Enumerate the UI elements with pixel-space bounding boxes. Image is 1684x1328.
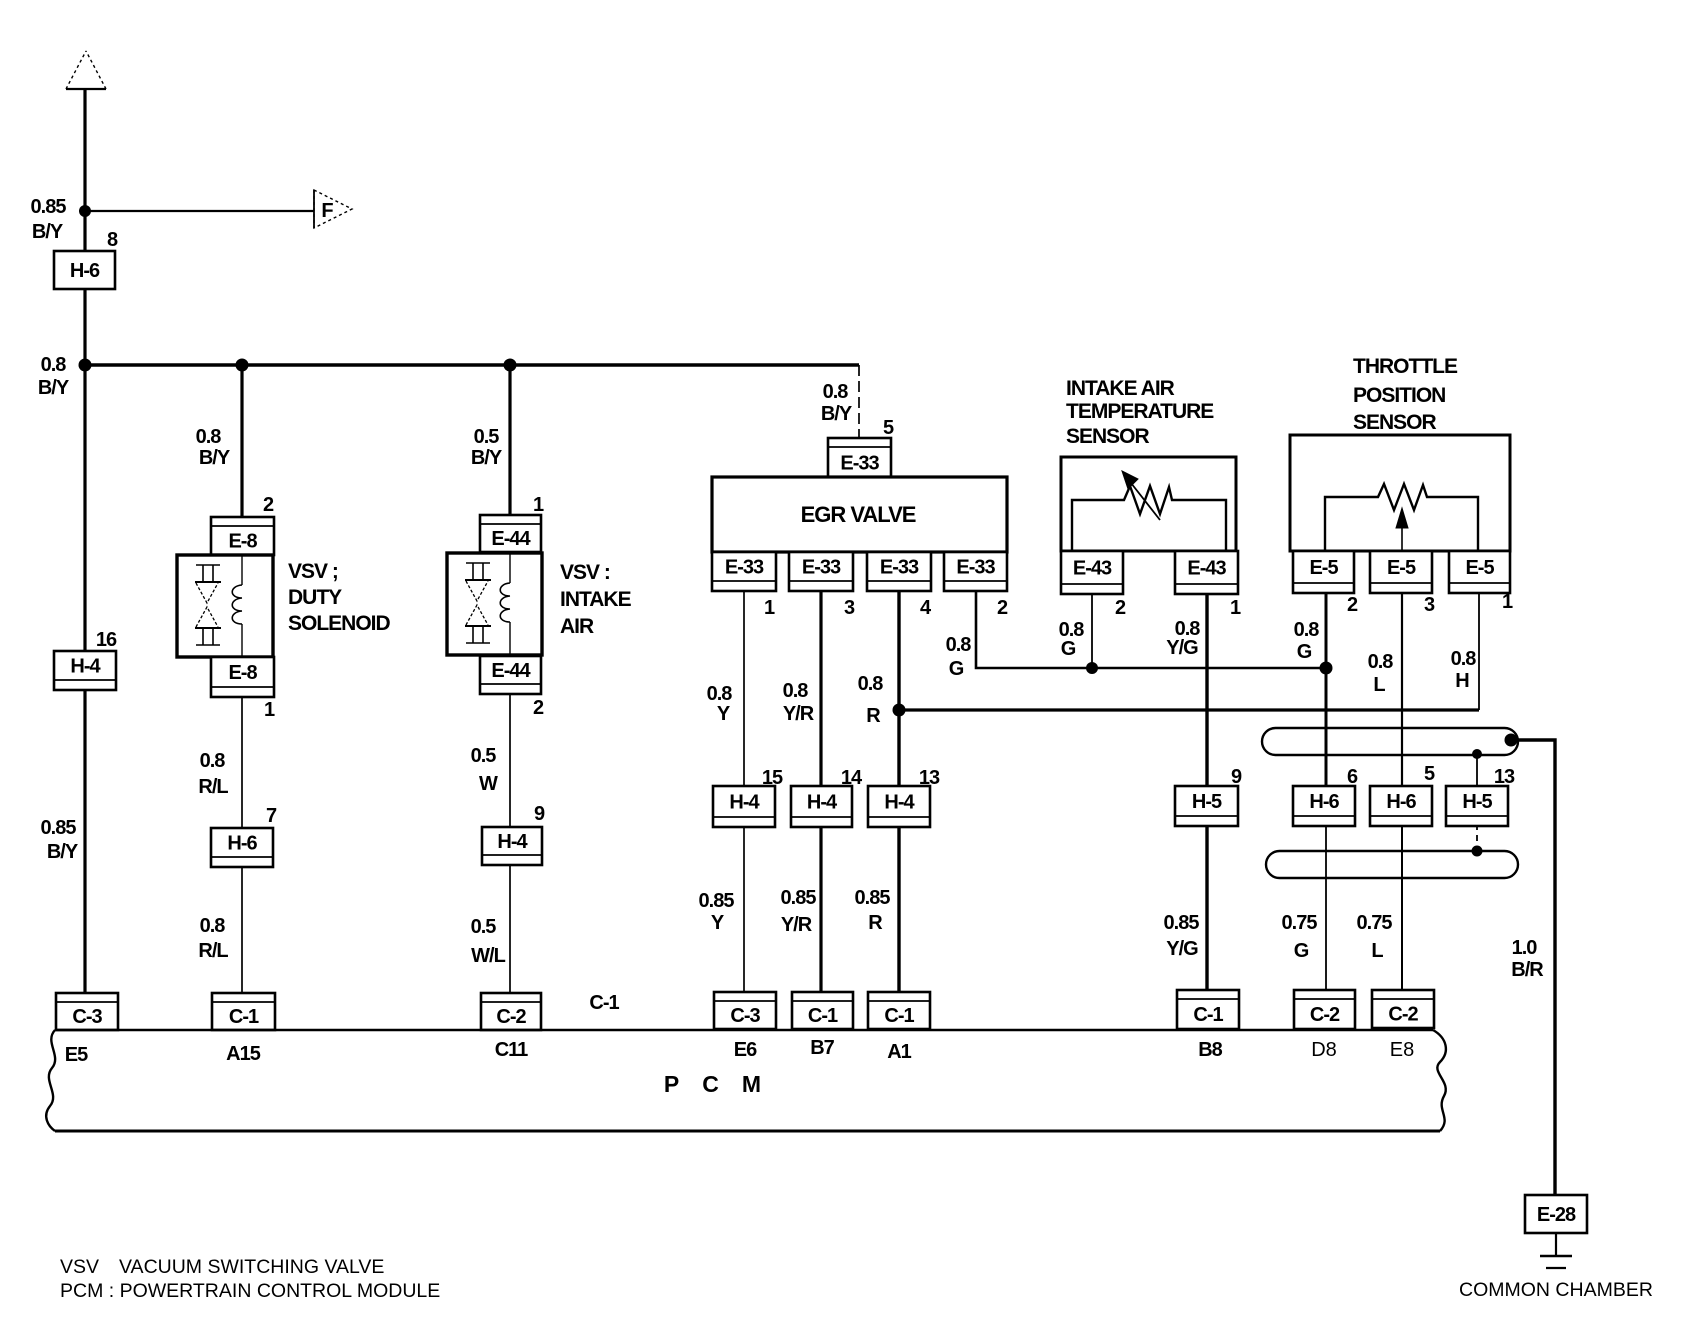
svg-text:2: 2 [1115,597,1126,619]
wire 0.5 W / 0.5 W/L VSV intake to C-2 C11 [509,692,511,995]
wire 0.8 Y/G / 0.85 Y/G IAT pin1 to C-1 B8 [1205,592,1208,992]
connector E-33 pin 1 [712,552,776,591]
coil symbol (intake) [500,552,510,655]
pin number 1 (E-44 top) [533,494,544,516]
wire 0.8 Y/R / 0.85 Y/R EGR pin3 to C-1 B7 [819,589,822,994]
svg-text:R/L: R/L [198,940,228,962]
svg-text:2: 2 [997,597,1008,619]
svg-text:0.85: 0.85 [781,887,817,909]
pin number 3 (E-5) [1424,594,1435,616]
wire 0.5 B/Y to VSV intake [508,365,511,517]
junction bus-left [79,359,92,372]
svg-text:E-8: E-8 [228,531,257,553]
connector E-33 pin 4 [867,552,931,591]
svg-text:A1: A1 [887,1041,911,1063]
svg-text:2: 2 [263,494,274,516]
svg-text:H-5: H-5 [1462,791,1492,813]
connector C-1 pin A15 [212,993,275,1030]
svg-text:H-6: H-6 [1309,791,1339,813]
svg-text:P: P [664,1071,679,1097]
label 0.85 Y [699,890,735,934]
connector E-8 pin 1 (bottom) [211,657,274,697]
svg-text:B/Y: B/Y [32,221,64,243]
pin number 15 [762,767,783,789]
svg-text:THROTTLE: THROTTLE [1353,355,1458,378]
svg-text:VACUUM SWITCHING VALVE: VACUUM SWITCHING VALVE [119,1256,384,1278]
connector H-4 pin 13 [868,786,930,827]
label 0.8 L [1368,651,1394,696]
wire shield drain to E-28 [1511,740,1555,1197]
connector C-1 pin B7 [792,992,853,1029]
junction at F branch [79,205,91,217]
pin number 2 (E-8 top) [263,494,274,516]
PCM body outline [46,1030,1446,1131]
pin number 5 (H-6) [1424,763,1435,785]
svg-text:9: 9 [534,803,545,825]
svg-text:0.8: 0.8 [1294,619,1320,641]
legend PCM [60,1280,440,1302]
label C-1 (PCM) [589,992,619,1014]
svg-text:0.8: 0.8 [1451,648,1477,670]
potentiometer element (TPS) [1325,484,1478,551]
wire 0.85 B/Y left main vertical [83,89,86,993]
wire 0.8 B/Y horizontal bus [85,363,859,366]
svg-text:E-43: E-43 [1073,558,1112,580]
connector E-28 [1525,1195,1587,1233]
svg-text:0.85: 0.85 [855,887,891,909]
svg-text:B/Y: B/Y [821,403,853,425]
svg-text:C-3: C-3 [730,1005,760,1027]
svg-text:5: 5 [1424,763,1435,785]
svg-text:C-3: C-3 [72,1006,102,1028]
svg-text:G: G [1061,638,1076,660]
label 0.8 Y [707,683,733,725]
svg-text:SENSOR: SENSOR [1066,425,1150,448]
svg-text:3: 3 [844,597,855,619]
pin number 2 (E-5) [1347,594,1358,616]
label 0.85 B/Y (lower left) [41,817,79,863]
VSV intake air body [447,553,542,655]
label 0.8 G (EGR pin2) [946,634,972,680]
svg-text:C-1: C-1 [589,992,619,1014]
wire E-28 to ground [1555,1231,1557,1256]
wire 0.8 L TPS pin3 down [1401,591,1403,788]
svg-text:W/L: W/L [471,945,505,967]
svg-text:3: 3 [1424,594,1435,616]
pin number 13 (H-5) [1494,766,1515,788]
connector H-6 pin 8 [54,251,115,289]
connector E-5 pin 3 [1370,551,1432,593]
svg-text:SENSOR: SENSOR [1353,411,1437,434]
pin number 13 (H-4) [919,767,940,789]
svg-text:E8: E8 [1390,1039,1414,1061]
pin number 2 (E-43) [1115,597,1126,619]
svg-text:0.8: 0.8 [707,683,733,705]
connector C-1 pin A1 [868,992,930,1029]
svg-text:0.8: 0.8 [200,915,226,937]
svg-text:2: 2 [533,697,544,719]
svg-text:0.8: 0.8 [1368,651,1394,673]
TPS body [1290,435,1510,551]
svg-text:Y/R: Y/R [783,703,815,725]
svg-text:C-1: C-1 [808,1005,838,1027]
svg-text:16: 16 [96,629,117,651]
svg-text:W: W [479,773,498,795]
svg-text:0.8: 0.8 [200,750,226,772]
label 0.8 H [1451,648,1477,692]
junction R branch [893,704,906,717]
svg-text:B/Y: B/Y [199,447,231,469]
component label VSV INTAKE AIR [560,561,632,638]
pin number 7 [266,805,277,827]
connector E-5 pin 2 [1293,551,1354,593]
svg-text:C-1: C-1 [229,1006,259,1028]
svg-text:E-5: E-5 [1387,557,1416,579]
label 0.8 Y/R [783,680,815,725]
label 0.85 R [855,887,891,934]
svg-text:E-33: E-33 [725,557,764,579]
label 0.8 R/L (upper) [198,750,228,798]
svg-text:0.8: 0.8 [196,426,222,448]
wire 0.8 R / 0.85 R EGR pin4 to C-1 A1 [897,589,900,994]
thermistor element (IAT) [1072,486,1226,551]
svg-text:H-4: H-4 [497,831,528,853]
pin name E5 [65,1044,88,1066]
wire 0.8 Y / 0.85 Y EGR pin1 to C-3 E6 [743,589,745,994]
svg-text:D8: D8 [1311,1039,1337,1061]
connector E-33 pin 3 [789,552,853,591]
pin name B7 [810,1037,834,1059]
svg-text:B7: B7 [810,1037,834,1059]
wire 0.8 B/Y drop to EGR pin 5 [858,365,860,440]
svg-text:C-2: C-2 [1310,1004,1340,1026]
valve symbol (intake) [465,563,491,643]
svg-text:C-1: C-1 [1193,1004,1223,1026]
svg-text:A15: A15 [226,1043,261,1065]
label 1.0 B/R [1511,937,1544,981]
shield oval lower [1266,851,1518,878]
svg-text:H-6: H-6 [1386,791,1416,813]
pin number 8 [107,229,118,251]
svg-text:TEMPERATURE: TEMPERATURE [1066,400,1214,423]
pin number 6 (H-6) [1347,766,1358,788]
pin number 5 (EGR top) [883,417,894,439]
svg-text:0.8: 0.8 [41,354,67,376]
svg-text:C-1: C-1 [884,1005,914,1027]
VSV duty solenoid body [177,555,273,657]
pin name B8 [1198,1039,1222,1061]
label 0.75 G [1282,912,1318,962]
component label PCM [664,1071,760,1097]
thermistor arrow (IAT) [1122,471,1160,520]
svg-text:13: 13 [1494,766,1515,788]
svg-text:E-44: E-44 [491,660,531,682]
connector C-1 pin B8 [1177,990,1239,1029]
label 0.85 Y/R [781,887,817,936]
pin name D8 [1311,1039,1337,1061]
svg-text:0.5: 0.5 [471,745,497,767]
connector C-2 pin C11 [481,993,541,1030]
svg-text:R: R [866,705,881,727]
svg-text:E-33: E-33 [880,557,919,579]
svg-text:INTAKE: INTAKE [560,588,632,611]
svg-text:H-6: H-6 [70,260,100,282]
connector E-43 pin 1 [1175,551,1238,594]
label 0.8 B/Y (bus) [38,354,70,399]
svg-text:C11: C11 [495,1039,528,1061]
svg-text:H-4: H-4 [70,656,101,678]
label 0.8 G (IAT) [1059,619,1085,660]
connector C-2 pin E8 [1372,990,1434,1028]
svg-text:EGR VALVE: EGR VALVE [801,502,916,527]
svg-text:H-5: H-5 [1192,791,1222,813]
wire 0.8 B/Y to VSV duty [240,365,243,519]
svg-text:E-33: E-33 [956,557,995,579]
connector H-6 pin 6 [1293,786,1355,826]
label 0.5 W [471,745,498,795]
connector H-5 pin 9 [1175,786,1238,826]
svg-text:0.8: 0.8 [823,381,849,403]
svg-text:Y: Y [711,912,725,934]
svg-text:15: 15 [762,767,783,789]
svg-text:1.0: 1.0 [1512,937,1538,959]
svg-text:E-5: E-5 [1309,557,1338,579]
label 0.75 L [1357,912,1393,962]
svg-text:G: G [949,658,964,680]
connector H-4 pin 16 [54,651,116,690]
svg-text:13: 13 [919,767,940,789]
connector E-44 pin 2 (bottom) [480,656,541,694]
wire 0.8 H TPS pin1 down [1478,591,1480,710]
svg-text:0.85: 0.85 [31,196,67,218]
svg-text:0.75: 0.75 [1357,912,1393,934]
pin number 1 (EGR) [764,597,775,619]
svg-text:H-6: H-6 [227,833,257,855]
coil symbol (duty) [232,555,242,657]
connector C-2 pin D8 [1294,990,1355,1029]
pin name C11 [495,1039,528,1061]
svg-text:0.8: 0.8 [858,673,884,695]
shield oval upper [1262,728,1518,755]
label 0.8 G (TPS) [1294,619,1320,663]
pin number 14 [841,767,863,789]
svg-text:COMMON CHAMBER: COMMON CHAMBER [1459,1279,1653,1301]
connector H-4 pin 14 [791,786,852,827]
svg-text:VSV ;: VSV ; [288,560,338,583]
connector E-8 pin 2 (top) [211,517,274,555]
svg-text:C-2: C-2 [1388,1004,1418,1026]
page reference triangle (top) [66,51,106,89]
component label THROTTLE POSITION SENSOR [1353,355,1458,434]
svg-text:E-33: E-33 [840,453,879,475]
label 0.8 B/Y (EGR) [821,381,853,425]
svg-text:E5: E5 [65,1044,88,1066]
component label INTAKE AIR TEMPERATURE SENSOR [1066,377,1214,448]
svg-text:SOLENOID: SOLENOID [288,612,391,635]
component label EGR VALVE [801,502,916,527]
connector E-43 pin 2 [1061,551,1123,594]
pin number 1 (E-5) [1502,591,1513,613]
label 0.8 R [858,673,884,727]
label 0.5 B/Y (intake branch) [471,426,503,469]
svg-text:L: L [1373,674,1385,696]
label 0.5 W/L [471,916,506,967]
connector H-4 pin 9 [482,827,542,865]
potentiometer wiper (TPS) [1396,508,1408,551]
svg-text:C-2: C-2 [496,1006,526,1028]
wire shield tap to H-5 13 [1476,754,1478,788]
svg-text:F: F [321,200,333,222]
pin number 1 (E-8 bottom) [264,699,275,721]
pin number 9 [534,803,545,825]
junction shield drain [1505,734,1518,747]
wire 0.8 G TPS pin2 down [1325,591,1328,788]
pin number 3 (EGR) [844,597,855,619]
svg-text:G: G [1294,940,1309,962]
EGR valve body [712,477,1007,552]
connector C-3 pin E5 [56,993,118,1030]
svg-text:1: 1 [264,699,275,721]
wire 0.8 G IAT pin2 [1091,592,1093,668]
svg-text:0.85: 0.85 [699,890,735,912]
wire 0.8 G EGR pin2 [976,589,1324,668]
svg-text:PCM : POWERTRAIN CONTROL MODUL: PCM : POWERTRAIN CONTROL MODULE [60,1280,440,1302]
svg-text:L: L [1371,940,1383,962]
legend VSV [60,1256,384,1278]
wire 0.75 L to C-2 E8 [1401,824,1403,992]
svg-text:6: 6 [1347,766,1358,788]
svg-text:H-4: H-4 [729,792,760,814]
pin number 2 (EGR) [997,597,1008,619]
pin number 2 (E-44 bottom) [533,697,544,719]
svg-text:VSV: VSV [60,1256,99,1278]
svg-text:E-44: E-44 [491,528,531,550]
svg-text:C: C [702,1071,718,1097]
connector H-6 pin 5 [1370,786,1432,826]
svg-text:0.8: 0.8 [783,680,809,702]
svg-text:2: 2 [1347,594,1358,616]
label 0.85 Y/G [1164,912,1200,960]
svg-text:POSITION: POSITION [1353,384,1445,407]
svg-text:E6: E6 [734,1039,757,1061]
junction lower shield [1472,846,1483,857]
junction shield tap [1472,749,1482,759]
label 0.85 B/Y (top left) [31,196,67,243]
svg-text:1: 1 [1230,597,1241,619]
valve symbol (duty) [195,565,221,645]
connector H-5 pin 13 [1446,786,1508,826]
svg-text:E-28: E-28 [1537,1204,1576,1226]
svg-text:B/Y: B/Y [471,447,503,469]
svg-text:1: 1 [533,494,544,516]
svg-text:H-4: H-4 [884,792,915,814]
svg-text:R: R [868,912,883,934]
svg-text:0.8: 0.8 [946,634,972,656]
svg-text:14: 14 [841,767,863,789]
connector H-6 pin 7 [211,828,273,867]
svg-text:E-43: E-43 [1187,558,1226,580]
svg-text:Y/R: Y/R [781,914,813,936]
svg-text:H-4: H-4 [807,792,838,814]
svg-text:AIR: AIR [560,615,594,638]
connector C-3 pin E6 [714,992,776,1029]
svg-text:9: 9 [1231,766,1242,788]
pin number 1 (E-43) [1230,597,1241,619]
wire branch to F connector arrow [85,210,314,212]
IAT sensor body [1061,457,1236,551]
pin number 9 (H-5) [1231,766,1242,788]
svg-text:H: H [1455,670,1469,692]
label 0.8 Y/G [1166,618,1200,659]
pin number 4 (EGR) [920,597,932,619]
svg-text:0.85: 0.85 [1164,912,1200,934]
label 0.8 R/L (lower) [198,915,228,962]
svg-text:1: 1 [764,597,775,619]
component label VSV DUTY SOLENOID [288,560,391,635]
svg-text:0.75: 0.75 [1282,912,1318,934]
svg-text:VSV :: VSV : [560,561,610,584]
svg-text:B/Y: B/Y [38,377,70,399]
svg-text:0.85: 0.85 [41,817,77,839]
pin name E6 [734,1039,757,1061]
pin name A15 [226,1043,261,1065]
svg-text:B8: B8 [1198,1039,1222,1061]
svg-text:M: M [742,1071,760,1097]
svg-text:8: 8 [107,229,118,251]
svg-text:INTAKE AIR: INTAKE AIR [1066,377,1175,400]
svg-text:G: G [1297,641,1312,663]
svg-text:E-33: E-33 [802,557,841,579]
svg-text:DUTY: DUTY [288,586,342,609]
label COMMON CHAMBER [1459,1279,1653,1301]
svg-text:Y: Y [717,703,731,725]
svg-text:Y/G: Y/G [1166,637,1198,659]
connector E-44 pin 1 (top) [480,515,541,552]
pin name A1 [887,1041,911,1063]
svg-text:E-5: E-5 [1465,557,1494,579]
svg-text:B/Y: B/Y [47,841,79,863]
junction G at IAT [1086,662,1098,674]
junction bus at VSV duty branch [236,359,249,372]
pin name E8 [1390,1039,1414,1061]
svg-text:B/R: B/R [1511,959,1544,981]
connector arrow F [314,190,352,228]
svg-text:E-8: E-8 [228,662,257,684]
connector H-4 pin 15 [713,786,775,827]
svg-text:5: 5 [883,417,894,439]
connector E-33 pin 5 (top) [828,438,891,478]
svg-text:R/L: R/L [198,776,228,798]
svg-text:0.5: 0.5 [471,916,497,938]
wire 0.8 R branch to 0.8 H [899,708,1479,711]
connector E-5 pin 1 [1449,551,1510,593]
wire 0.8 R/L VSV duty to C-1 A15 [241,695,243,995]
pin number 16 [96,629,117,651]
ground symbol common chamber [1540,1256,1572,1268]
wire 0.75 G to C-2 D8 [1325,824,1327,992]
connector E-33 pin 2 [944,552,1007,591]
label 0.8 B/Y (duty branch) [196,426,231,469]
wire H-5 13 to lower shield (dashed) [1476,824,1478,851]
svg-text:Y/G: Y/G [1166,938,1198,960]
junction bus at VSV intake branch [504,359,517,372]
svg-text:0.5: 0.5 [474,426,500,448]
junction G at TPS [1320,662,1333,675]
svg-text:1: 1 [1502,591,1513,613]
svg-text:7: 7 [266,805,277,827]
